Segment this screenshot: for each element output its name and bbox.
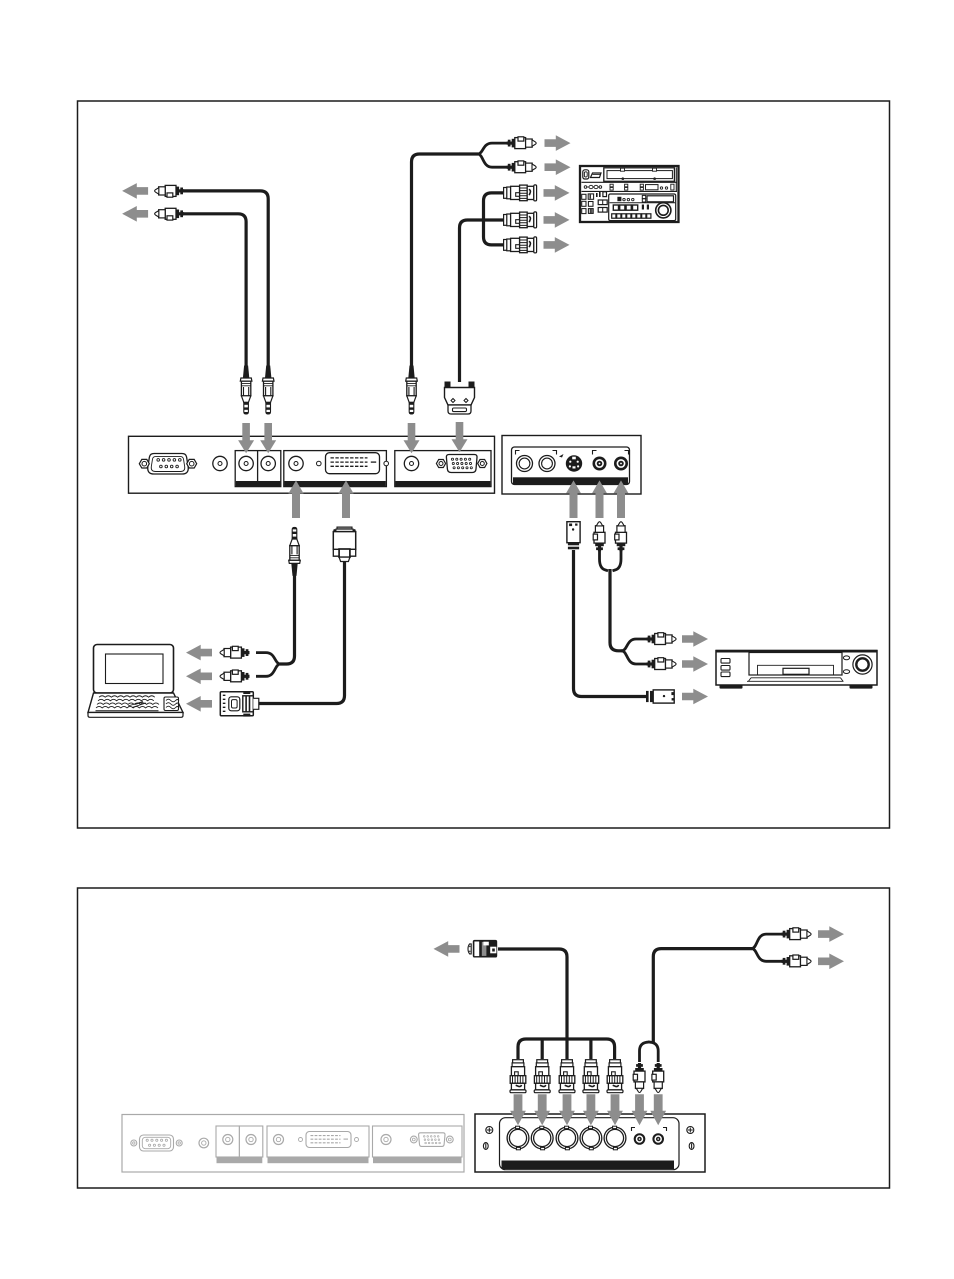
arrow left laptop audio upper [186, 645, 212, 661]
arrow left laptop DVI [186, 696, 212, 712]
BNC jack 1 [507, 1127, 529, 1149]
arrow up into VIDEO RCA jack 1 [592, 480, 607, 518]
wire RCA pair split (bottom diagram) [752, 934, 784, 949]
RCA plug to laptop audio upper (points left) [220, 646, 250, 658]
arrow right BNC1 [544, 185, 570, 201]
BNC plug into jack 1 (points down) [510, 1060, 526, 1093]
BNC plug into jack 2 (points down) [534, 1060, 550, 1093]
RCA plug to laptop audio lower (points left) [220, 670, 250, 682]
arrow right VCR audio upper [682, 631, 708, 647]
wire audio-out R to AUDIO jack (left pair, lower) [183, 214, 246, 366]
BNC plug 2 (points right) [504, 212, 537, 228]
DVI connector [317, 453, 389, 474]
wire 5BNC bus to VGA plug [498, 949, 567, 1039]
VIDEO IN S-video jack 2 (white DIN) [539, 456, 555, 472]
arrow left audio R [122, 206, 148, 222]
deck jog dial [656, 203, 671, 218]
arrow left audio L [122, 183, 148, 199]
deck middle strip icons [584, 184, 674, 190]
arrow right S-video to VCR [682, 689, 708, 705]
INPUT B RGB HD D-sub15 connector [436, 460, 445, 468]
S-video plug to VCR (points right) [646, 690, 674, 703]
arrow right deck audio lower [545, 159, 571, 175]
deck control buttons [582, 194, 586, 199]
wire DVI plug to laptop DVI connector [258, 561, 345, 704]
arrow right deck audio upper [545, 135, 571, 151]
HD D-sub15 plug into INPUT-B RGB jack (points down) [445, 382, 475, 415]
wire BNC stub 4 [589, 1039, 592, 1059]
arrow down into AUDIO L jack [260, 423, 276, 453]
wire audio pair to VCR (Y split upper) [600, 550, 609, 571]
S-video plug up into S VIDEO jack [567, 522, 580, 550]
BNC jack 4 [580, 1127, 602, 1149]
BNC plug into jack 3 (points down) [559, 1060, 575, 1093]
bracket marks over board RCA jacks [632, 1128, 667, 1132]
figure frame (top diagram) [78, 101, 890, 828]
BNC jack 5 [604, 1127, 626, 1149]
bracket mark right of S-video jacks [553, 451, 557, 455]
white RCA plug up into VIDEO RCA jack 2 [615, 522, 627, 552]
VIDEO IN RCA jack 1 [593, 457, 607, 471]
D-sub 9 right screw [187, 459, 197, 468]
mini plug into AUDIO R jack [240, 366, 252, 415]
arrow right VCR audio lower [682, 656, 708, 672]
wire laptop audio (mini plug down to RCA split) [280, 574, 295, 664]
arrow up into DVI connector [338, 480, 353, 518]
mini plug into INPUT-B audio jack [406, 366, 418, 415]
INPUT A audio jack [289, 456, 303, 470]
figure frame (bottom diagram) [78, 888, 890, 1188]
arrow down into INPUT-B audio jack [404, 423, 420, 453]
wire 5BNC bus [518, 1039, 615, 1059]
arrow right audio upper (bottom diagram) [818, 926, 844, 942]
5BNC input adaptor panel [475, 1114, 705, 1172]
RCA plug to VCR audio lower (points right) [647, 658, 677, 670]
DVI plug up into DVI connector [333, 527, 355, 562]
mini plug up into INPUT A audio jack [289, 527, 301, 576]
VIDEO IN RCA jack 2 [614, 457, 628, 471]
professional VCR deck [580, 166, 679, 222]
arrow up into INPUT A audio jack [288, 480, 303, 518]
bracket mark left of S-video jacks [516, 451, 520, 455]
RCA plug audio R (points left) [155, 208, 185, 220]
mini plug into AUDIO L jack [262, 366, 274, 415]
deck right control pad [609, 194, 676, 221]
wire BNC stub 3 [565, 1039, 568, 1059]
wire audio pair to VCR (Y split lower) [613, 550, 622, 571]
BNC jack 2 [531, 1127, 553, 1149]
BNC plug 3 (points right) [504, 237, 537, 253]
panel screw left slot [483, 1143, 488, 1150]
RCA plug audio L (points left) [155, 185, 185, 197]
wire BNC1-BNC3 branch [484, 193, 505, 245]
arrow right BNC3 [544, 237, 570, 253]
INPUT A section box (DVI) [284, 451, 387, 487]
white RCA plug into board jack L (points down) [633, 1063, 645, 1093]
arrow left laptop audio lower [186, 669, 212, 685]
VIDEO IN S-video jack 1 (white DIN) [517, 456, 533, 472]
arrow up into S VIDEO jack [566, 480, 581, 518]
board RCA jack R [652, 1133, 664, 1145]
RCA plug audio out lower (points right, bottom diagram) [782, 955, 812, 967]
bracket marks over video RCA jacks [593, 451, 629, 455]
CONTROL S jack [213, 456, 227, 470]
wire audio-out L to AUDIO jack (left pair, upper) [183, 191, 268, 366]
small pointer glyph [559, 454, 564, 458]
arrow down into board connector 7 [650, 1094, 666, 1125]
INPUT B section box (RGB) [395, 451, 491, 487]
arrow right audio lower (bottom diagram) [818, 954, 844, 970]
wire audio pair to VCR (trunk and split to RCA plugs) [610, 569, 622, 651]
BNC jack 3 [556, 1127, 578, 1149]
projector connector panel [129, 436, 495, 493]
S VIDEO jack (black DIN) [566, 455, 582, 471]
arrow down into INPUT-B RGB jack [452, 422, 468, 452]
RCA plug to VCR audio upper (points right) [647, 633, 677, 645]
arrow down into board connector 2 [534, 1094, 550, 1125]
ghost projector panel (gray) [122, 1115, 464, 1173]
DVI plug to laptop (points left) [220, 691, 258, 717]
video input panel [502, 436, 641, 495]
RCA plug to deck audio in lower (points right) [507, 161, 536, 173]
AUDIO jack L [239, 456, 253, 470]
AUDIO jack R [261, 456, 275, 470]
BNC plug 1 (points right) [504, 185, 537, 201]
panel screw top-right [687, 1127, 694, 1134]
white RCA plug into board jack R (points down) [652, 1063, 664, 1093]
VCR (video deck) [716, 651, 877, 689]
BNC plug into jack 4 (points down) [583, 1060, 599, 1093]
INPUT B audio jack [404, 456, 418, 470]
arrow down into board connector 5 [607, 1094, 623, 1125]
RCA plug audio out upper (points right, bottom diagram) [782, 928, 812, 940]
arrow down into board connector 3 [559, 1094, 575, 1125]
wire BNC stub 2 [541, 1039, 544, 1059]
arrow down into board connector 1 [510, 1094, 526, 1125]
BNC plug into jack 5 (points down) [607, 1060, 623, 1093]
panel screw right slot [689, 1143, 694, 1150]
laptop computer [88, 645, 183, 718]
arrow up into VIDEO RCA jack 2 [613, 480, 628, 518]
arrow down into board connector 6 [632, 1094, 648, 1125]
arrow left to monitor [434, 941, 460, 957]
AUDIO section box [235, 451, 281, 487]
wire audio to VCR deck (mini plug up to RCA split) [412, 154, 479, 366]
white RCA plug up into VIDEO RCA jack 1 [593, 522, 605, 552]
RCA plug to deck audio in upper (points right) [507, 137, 536, 149]
board RCA jack L [634, 1133, 646, 1145]
panel screw top-left [486, 1127, 493, 1134]
arrow down into board connector 4 [583, 1094, 599, 1125]
arrow right BNC2 [544, 212, 570, 228]
D-sub 9 left screw [139, 459, 149, 468]
VGA monitor plug (points left) [468, 940, 497, 958]
arrow down into AUDIO R jack [238, 423, 254, 453]
wire VGA plug to BNC2 [460, 220, 505, 382]
RS-232C D-sub 9 connector [148, 454, 189, 475]
wire S-video to VCR [574, 550, 647, 697]
wire RCA pair trunk (bottom diagram) [653, 949, 752, 1042]
